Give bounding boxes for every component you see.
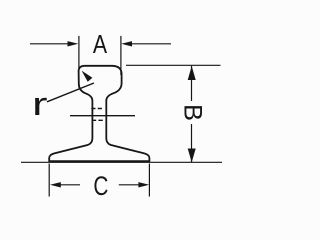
dimension A: left arrowhead: [68, 41, 79, 46]
rail cross-section outline: [49, 66, 149, 161]
r leader line: [47, 83, 94, 102]
dimension A: left extension line: [78, 36, 80, 70]
bottom datum line (extends both sides of foot): [21, 161, 222, 163]
dimension C: right arrowhead: [138, 182, 149, 187]
dimension C: left extension line: [48, 164, 50, 197]
dimension B: vertical line upper part: [191, 66, 193, 101]
dimension B: top arrowhead: [188, 66, 196, 80]
top extension line for B (from head top to right): [126, 64, 221, 66]
dimension B: vertical line lower part: [191, 124, 193, 162]
dimension C: right extension line: [148, 164, 150, 197]
dimension B: bottom arrowhead: [188, 149, 196, 163]
dimension C: left arrow line: [58, 184, 80, 186]
svg-text:C: C: [93, 171, 108, 201]
web break: dashed line lower: [92, 119, 104, 121]
dimension A: right arrowhead: [121, 41, 132, 46]
web break: dashed line upper: [91, 108, 103, 110]
dimension A: right arrow line: [130, 43, 171, 45]
dimension C: left arrowhead: [50, 182, 61, 187]
r leader arrowhead: [82, 71, 93, 82]
svg-text:B: B: [178, 104, 206, 121]
svg-text:A: A: [93, 29, 108, 59]
dimension A: left arrow line: [30, 43, 70, 45]
dimension A: right extension line: [120, 36, 122, 75]
dimension C: right arrow line: [119, 184, 141, 186]
web break: solid line: [70, 115, 135, 117]
svg-text:r: r: [32, 86, 48, 122]
